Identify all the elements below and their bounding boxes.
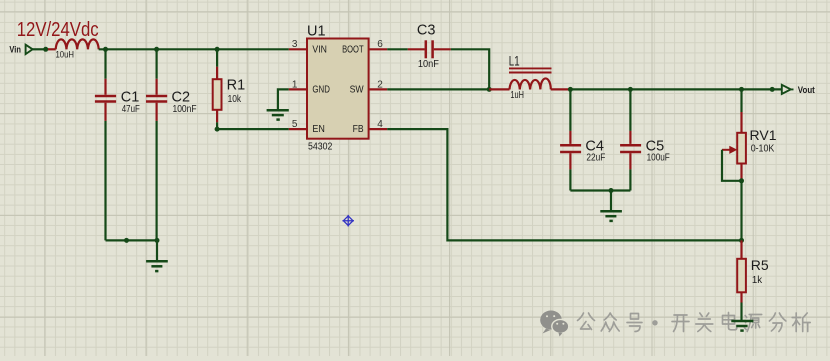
char fen: [769, 313, 786, 332]
inductor 10uH: [48, 39, 99, 49]
node junction at 45.7,49.3: [43, 47, 48, 52]
svg-text:L1: L1: [509, 54, 520, 69]
capacitor C4: [560, 131, 581, 170]
svg-text:RV1: RV1: [750, 127, 777, 143]
watermark wechat icon small bubble eyes: [556, 323, 564, 325]
svg-text:54302: 54302: [308, 141, 332, 152]
op-amp U1 body: [307, 39, 369, 139]
node junction C2 top: [154, 47, 159, 52]
wire C1 top drop: [104, 49, 106, 79]
svg-text:1uH: 1uH: [510, 90, 524, 101]
svg-text:10uH: 10uH: [56, 50, 75, 61]
capacitor C3: [408, 40, 451, 58]
node junction C5 top: [628, 87, 633, 92]
ground below C1 C2 rail: [146, 240, 168, 271]
svg-text:Vout: Vout: [798, 85, 816, 96]
char dian: [723, 313, 737, 330]
svg-text:0-10K: 0-10K: [751, 143, 775, 154]
middle dot: [652, 320, 657, 325]
svg-text:22uF: 22uF: [586, 152, 605, 163]
wire output bus: [570, 88, 781, 90]
wire FB feedback: [387, 129, 741, 240]
wire C2 bottom drop: [156, 121, 158, 240]
wire C5 top drop: [629, 89, 631, 130]
svg-text:6: 6: [377, 39, 383, 50]
svg-text:10k: 10k: [228, 94, 242, 105]
wire R5 to ground: [740, 303, 742, 321]
watermark wechat icon small bubble: [552, 319, 569, 336]
svg-text:FB: FB: [353, 124, 364, 135]
inductor L1: [489, 68, 570, 89]
wire RV1 wiper: [722, 150, 742, 181]
node junction RV1 top: [739, 87, 744, 92]
node junction C1 top: [103, 47, 108, 52]
svg-text:EN: EN: [312, 124, 325, 135]
char gong: [578, 313, 595, 330]
node junction ground tap C4C5: [609, 188, 614, 193]
wire RV1 top drop: [740, 89, 742, 112]
svg-text:BOOT: BOOT: [342, 44, 364, 55]
capacitor C2: [146, 79, 167, 121]
watermark wechat icon big bubble: [540, 311, 562, 334]
svg-text:4: 4: [377, 119, 383, 130]
wire C1 bottom drop: [104, 121, 106, 240]
node junction on rail: [124, 238, 129, 243]
svg-text:10nF: 10nF: [418, 59, 439, 70]
terminal Vout: [782, 85, 794, 94]
char kai: [672, 315, 689, 332]
svg-text:5: 5: [292, 119, 298, 130]
svg-text:C3: C3: [417, 23, 436, 39]
wire R1 top drop: [216, 49, 218, 67]
svg-text:47uF: 47uF: [122, 104, 140, 115]
svg-text:100nF: 100nF: [173, 104, 197, 115]
svg-text:Vin: Vin: [9, 44, 21, 55]
wire SW to L1: [387, 88, 489, 90]
origin marker: [342, 215, 354, 227]
svg-text:R5: R5: [751, 257, 769, 273]
wire top bus L to U1 VIN: [99, 48, 289, 50]
ground below C4 C5: [600, 191, 622, 221]
terminal Vin: [26, 45, 33, 54]
svg-text:1: 1: [292, 79, 298, 90]
watermark wechat icon big bubble eyes: [546, 315, 555, 317]
wire C5 bottom drop: [629, 169, 631, 190]
pin stubs U1: [289, 49, 387, 129]
node junction R1 top: [215, 47, 220, 52]
wire C3 to SW node: [451, 49, 489, 89]
svg-text:100uF: 100uF: [647, 152, 670, 163]
ground below R5: [731, 321, 753, 331]
svg-text:12V/24Vdc: 12V/24Vdc: [17, 19, 99, 41]
wire RV1 to FB node: [740, 181, 742, 241]
svg-text:SW: SW: [350, 85, 364, 96]
svg-text:GND: GND: [312, 85, 330, 96]
wire GND pin to ground: [278, 89, 289, 109]
wire C2 top drop: [156, 49, 158, 79]
svg-text:3: 3: [292, 39, 298, 50]
svg-text:1k: 1k: [752, 275, 762, 286]
node junction before Vout: [770, 87, 775, 92]
watermark text 公众号·开关电源分析: [578, 313, 811, 332]
svg-text:2: 2: [377, 79, 383, 90]
wire C4 top drop: [569, 89, 571, 130]
capacitor C5: [620, 131, 641, 170]
wire BOOT to C3: [387, 48, 408, 50]
node junction FB RV1 R5: [739, 238, 744, 243]
wire Vin to L(10uH): [33, 48, 49, 50]
svg-text:R1: R1: [227, 78, 246, 94]
char yuan: [744, 315, 762, 332]
resistor R1: [213, 67, 222, 123]
char xi: [792, 313, 810, 332]
node junction SW L1: [487, 87, 492, 92]
potentiometer RV1: [722, 112, 746, 181]
node junction C4 top: [568, 87, 573, 92]
capacitor C1: [95, 79, 116, 121]
wire C4 C5 rail: [570, 189, 630, 191]
svg-text:VIN: VIN: [312, 44, 327, 55]
wire R1 bottom to EN: [217, 122, 289, 129]
char guan: [696, 313, 713, 332]
node junction ground tap: [155, 238, 160, 243]
char zhong: [601, 313, 619, 332]
wire bottom-left rail: [106, 239, 158, 241]
node junction RV1 bottom: [739, 178, 744, 183]
node junction R1 bottom: [215, 127, 220, 132]
ground at U1 GND: [267, 110, 289, 119]
svg-text:U1: U1: [307, 23, 326, 39]
char hao: [627, 314, 642, 332]
wire C4 bottom drop: [569, 169, 571, 190]
resistor R5: [737, 240, 746, 302]
